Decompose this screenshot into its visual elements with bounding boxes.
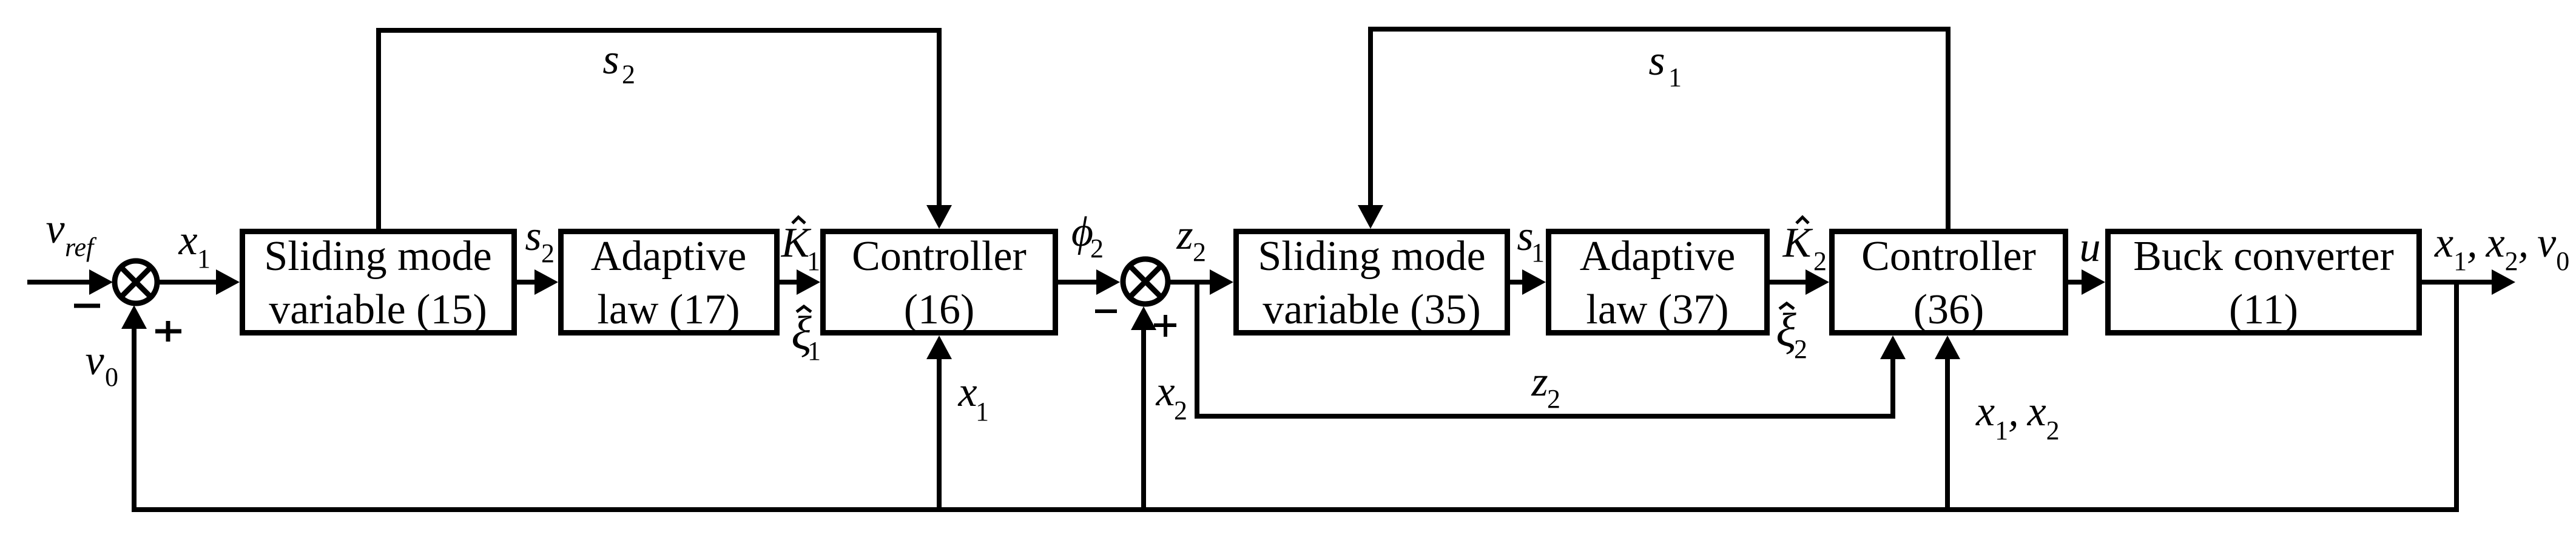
- wire: s1 feedback loop top right: [1358, 27, 1951, 231]
- wire: x2 riser into S2: [1131, 306, 1156, 507]
- svg-text:ref: ref: [65, 232, 97, 262]
- svg-text:(11): (11): [2229, 286, 2298, 333]
- wire: output from Buck converter: [2422, 280, 2493, 285]
- svg-text:(16): (16): [904, 286, 975, 333]
- label x_2 bottom: [1155, 368, 1187, 425]
- svg-text:2: 2: [1193, 237, 1206, 267]
- block: Adaptive law (17): [561, 232, 777, 334]
- svg-text:2: 2: [1794, 334, 1807, 364]
- svg-text:Sliding mode: Sliding mode: [1258, 233, 1485, 280]
- sign plus at S1: [155, 321, 181, 342]
- svg-text:s: s: [1648, 38, 1665, 84]
- svg-text:u: u: [2080, 224, 2101, 271]
- block: Sliding mode variable (15): [243, 232, 514, 334]
- svg-text:2: 2: [1813, 246, 1827, 276]
- wire: v0 feedback up into S1: [121, 305, 147, 512]
- label z_2 after S2: [1176, 212, 1206, 267]
- wire: u from block 36 to Buck converter: [2068, 280, 2083, 285]
- wire: phi2 from block 16 to S2: [1058, 280, 1098, 285]
- block: Sliding mode variable (35): [1236, 232, 1508, 334]
- label xi2 hat: [1776, 303, 1807, 364]
- wire: x1,x2 riser into block 36: [1935, 336, 1960, 507]
- svg-text:Adaptive: Adaptive: [591, 233, 747, 280]
- svg-text:(36): (36): [1913, 286, 1984, 333]
- label x_1 after S1: [178, 217, 211, 274]
- svg-text:variable (35): variable (35): [1263, 286, 1481, 333]
- svg-text:x1, x2: x1, x2: [1975, 388, 2060, 445]
- label xi1 hat: [791, 306, 821, 366]
- svg-text:1: 1: [197, 244, 211, 274]
- block: Controller (36): [1832, 232, 2066, 334]
- wire: x1 riser into block 16: [926, 336, 952, 507]
- wire: K2 hat from block 37 to block 36: [1770, 280, 1807, 285]
- svg-text:Controller: Controller: [852, 233, 1027, 280]
- svg-text:x1, x2, v0: x1, x2, v0: [2434, 220, 2569, 276]
- wire: s2 feedback loop top left: [376, 28, 952, 231]
- svg-text:Buck converter: Buck converter: [2133, 233, 2394, 280]
- label z_2 bottom: [1531, 359, 1560, 414]
- svg-text:2: 2: [622, 59, 635, 89]
- svg-text:law (37): law (37): [1586, 286, 1728, 333]
- svg-text:0: 0: [105, 362, 118, 392]
- svg-text:2: 2: [1090, 234, 1104, 263]
- label phi_2: [1071, 209, 1104, 263]
- wire: z2 feedback branch to block 36: [1195, 282, 1906, 419]
- wire: x1 from S1 to block 15: [159, 280, 217, 285]
- svg-text:z: z: [1176, 212, 1193, 258]
- sign plus at S2: [1154, 315, 1176, 337]
- wire: z2 from S2 to block 35: [1168, 280, 1212, 285]
- svg-text:variable (15): variable (15): [269, 286, 487, 333]
- label s_1 mid: [1517, 213, 1545, 268]
- wire: s2 from block 15 to block 17: [517, 280, 536, 285]
- svg-text:x: x: [957, 369, 977, 416]
- label x_1 bottom: [957, 369, 989, 427]
- svg-text:x: x: [178, 217, 197, 264]
- svg-text:z: z: [1531, 359, 1548, 405]
- label v_ref: [46, 206, 97, 262]
- svg-text:s: s: [525, 213, 541, 260]
- label s_1 top: [1648, 38, 1682, 92]
- label s_2 mid: [525, 213, 555, 268]
- svg-text:2: 2: [541, 238, 555, 268]
- label K1 hat: [781, 217, 820, 276]
- svg-text:Adaptive: Adaptive: [1580, 233, 1736, 280]
- wire: K1 hat from block 17 to block 16: [780, 280, 798, 285]
- svg-text:K: K: [1782, 220, 1813, 266]
- svg-text:Controller: Controller: [1861, 233, 2036, 280]
- sign minus at S1: [74, 304, 100, 308]
- svg-text:1: 1: [807, 246, 820, 276]
- svg-text:1: 1: [976, 397, 989, 427]
- label v_0 left: [85, 337, 118, 392]
- block: Adaptive law (37): [1549, 232, 1767, 334]
- label s_2 top: [602, 36, 635, 89]
- svg-text:Sliding mode: Sliding mode: [264, 233, 491, 280]
- svg-text:x: x: [1155, 368, 1175, 415]
- block: Buck converter (11): [2108, 232, 2419, 334]
- svg-text:law (17): law (17): [597, 286, 740, 333]
- svg-text:2: 2: [1547, 384, 1560, 414]
- svg-text:v: v: [46, 206, 65, 252]
- svg-text:2: 2: [1174, 396, 1187, 425]
- summing junction S1: [115, 261, 157, 303]
- sign minus at S2: [1095, 309, 1117, 313]
- svg-text:1: 1: [808, 336, 821, 366]
- wire: s1 from block 35 to block 37: [1510, 280, 1524, 285]
- label K2 hat: [1782, 217, 1827, 276]
- wire: v_ref input: [27, 280, 91, 285]
- svg-text:s: s: [602, 36, 619, 83]
- svg-text:1: 1: [1668, 62, 1682, 92]
- svg-text:v: v: [85, 337, 104, 384]
- summing junction S2: [1123, 259, 1168, 304]
- block: Controller (16): [823, 232, 1056, 334]
- svg-text:1: 1: [1531, 238, 1545, 268]
- wire: bottom feedback line: [132, 507, 2459, 512]
- wire: feedback branch down from output: [2454, 282, 2459, 512]
